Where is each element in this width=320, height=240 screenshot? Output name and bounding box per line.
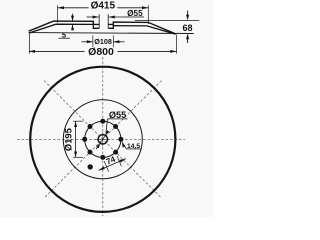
label 14,5 leader with arrow (124, 145, 127, 149)
dimension Ø108 left arrow (82, 41, 93, 43)
front view: vertical centerline (102, 57, 104, 216)
dimension Ø55 (top) left line (87, 16, 99, 18)
bolt hole W (82, 137, 87, 142)
bolt hole SE (113, 150, 118, 155)
front view: center hole Ø55 (98, 135, 107, 144)
dimension Ø108 right arrow (113, 41, 124, 43)
label 14,5 underline (126, 148, 141, 150)
dimension Ø800 right extension line (175, 35, 177, 54)
dimension Ø800 left arrow (29, 50, 35, 53)
svg-text:Ø415: Ø415 (91, 1, 116, 12)
dimension Ø195 line (75, 121, 77, 157)
Ø55 diameter line through center hole (100, 136, 105, 143)
side view: center hole right edge (107, 14, 109, 28)
dimension 74 extension line from SE hole (117, 156, 121, 166)
dimension Ø55 (top) right arrow (109, 16, 115, 19)
side view: disc bottom surface outline (29, 24, 176, 34)
dimension 68 top reference line (135, 19, 199, 21)
extra hole lower-left (88, 164, 93, 169)
dimension 5 upper arrow (72, 14, 74, 21)
dimension Ø55 (top) right line (109, 16, 144, 18)
dimension Ø195 bottom extension tick (73, 156, 83, 158)
dimension Ø195 top extension tick (73, 120, 83, 122)
side view: center hole left edge (98, 14, 100, 28)
dimension Ø108 left extension line (92, 35, 94, 47)
front view: diagonal centerline NW-SE (44, 81, 161, 198)
dimension Ø800 left extension line (29, 33, 31, 54)
bolt hole S (100, 155, 105, 160)
front view: outer circle Ø800 (30, 67, 175, 212)
bolt hole NW (88, 124, 93, 129)
dimension 74 line (99, 159, 126, 171)
side view: disc top surface outline (29, 21, 175, 33)
label Ø55 underline (108, 118, 128, 120)
dimension 5 lower arrow (72, 25, 74, 30)
bolt hole N (100, 119, 105, 124)
front view: bolt circle Ø195 (85, 121, 121, 157)
dimension Ø800 line (29, 50, 177, 52)
svg-text:Ø108: Ø108 (94, 37, 112, 46)
dimension 5 underline (59, 37, 71, 39)
dimension Ø800 right arrow (170, 50, 176, 53)
front view: inner circle Ø415 (63, 100, 142, 179)
dimension Ø195 top arrow (74, 121, 77, 127)
dimension 74 extension line from S hole (104, 161, 108, 171)
Ø55 lower-left arrow (96, 143, 100, 148)
bolt hole NE (113, 124, 118, 129)
dimension Ø55 (top) left arrow (93, 16, 99, 19)
dimension 74 left arrow (99, 166, 105, 170)
front view: horizontal centerline (17, 138, 185, 140)
dimension Ø415 right extension line (147, 5, 149, 24)
bolt hole SW (88, 150, 93, 155)
dimension Ø415 right arrow (142, 6, 148, 9)
dimension Ø108 right extension line (112, 35, 114, 47)
dimension Ø415 left extension line (57, 5, 59, 22)
dimension 74 right arrow (120, 159, 126, 163)
label Ø55 leader with arrow (106, 119, 108, 133)
front view: diagonal centerline NE-SW (44, 81, 161, 198)
svg-text:Ø55: Ø55 (127, 9, 143, 18)
bolt hole E (118, 137, 123, 142)
dimension 68 down arrow (187, 11, 189, 15)
side view: bottom chord / rim line (29, 32, 194, 35)
svg-text:Ø195: Ø195 (62, 128, 73, 151)
dimension 68 up arrow (187, 39, 189, 43)
dimension Ø415 left arrow (58, 6, 64, 9)
front view: center hole crosshair (96, 132, 111, 147)
svg-text:68: 68 (182, 23, 192, 33)
dimension Ø415 line (58, 7, 149, 9)
dimension Ø195 bottom arrow (74, 152, 77, 158)
svg-text:Ø800: Ø800 (88, 46, 114, 58)
